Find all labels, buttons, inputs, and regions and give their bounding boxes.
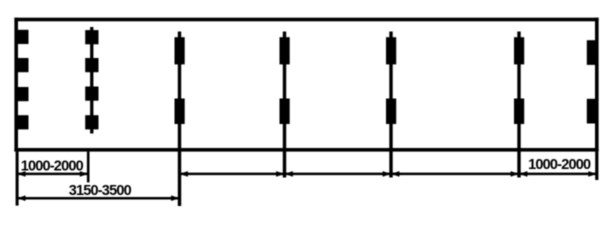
svg-text:1000-2000: 1000-2000 — [21, 158, 84, 174]
svg-text:1000-2000: 1000-2000 — [528, 157, 591, 173]
svg-text:3150-3500: 3150-3500 — [69, 183, 132, 199]
